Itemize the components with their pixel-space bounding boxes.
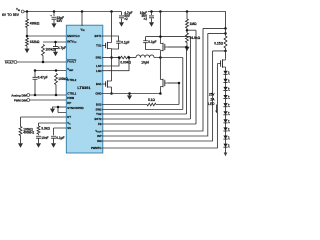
- wire SW1 to Rs: [112, 57, 120, 59]
- wire GND bus: [102, 93, 160, 95]
- inductor L1 10uH: [136, 55, 154, 58]
- capacitor C7 0.1uF: [51, 136, 56, 138]
- svg-text:FAULT: FAULT: [5, 60, 14, 64]
- op-amp U1 LT8391 body: [66, 25, 103, 153]
- resistor R8 3.3k: [37, 126, 40, 134]
- svg-text:54.9kΩ: 54.9kΩ: [190, 36, 201, 40]
- resistor R9 sense 4m: [119, 56, 129, 59]
- junction INTVCC C4: [54, 41, 57, 44]
- arrow LED return: [224, 153, 228, 157]
- junction FB divider rail: [186, 10, 189, 13]
- wire ISN: [102, 51, 226, 141]
- wire C8 to SW1: [112, 43, 119, 49]
- svg-text:332kΩ: 332kΩ: [30, 40, 40, 44]
- wire R8 to C6: [38, 134, 40, 135]
- wire BG2: [102, 104, 147, 106]
- wire Rs to L1: [129, 57, 136, 59]
- svg-text:ISP: ISP: [97, 134, 102, 138]
- junction M4 gnd: [159, 92, 162, 95]
- ground RT: [18, 143, 23, 148]
- wire INTVCC to C4: [55, 42, 57, 47]
- wire VIN rail: [24, 11, 122, 13]
- wire TG2: [102, 47, 187, 114]
- diode LED1: [223, 71, 227, 75]
- wire BST1: [102, 36, 119, 41]
- wire M3 drain: [111, 80, 113, 83]
- junction gnd stub: [128, 92, 131, 95]
- capacitor C6 10nF: [36, 136, 41, 138]
- wire rail to C3: [151, 12, 153, 16]
- wire LED7 link: [225, 115, 227, 120]
- diode LED8: [223, 127, 227, 131]
- capacitor C8 0.1uF BST1: [116, 41, 121, 43]
- wire LED6 link: [225, 107, 227, 112]
- wire Rs2 bot: [225, 48, 227, 58]
- junction M2 drain rail: [159, 10, 162, 13]
- wire R3 to R4: [186, 28, 188, 33]
- wire Rs2 top: [225, 28, 227, 36]
- wire LED1 link: [225, 70, 227, 71]
- svg-text:ISN: ISN: [97, 139, 102, 143]
- transistor M2: [160, 44, 163, 51]
- svg-text:TG2: TG2: [96, 112, 102, 116]
- resistor R3 1M: [186, 19, 189, 28]
- diode LED3: [223, 87, 227, 91]
- junction M3 gnd: [110, 92, 113, 95]
- svg-text:SW2: SW2: [96, 108, 103, 112]
- wire LED5 link: [225, 99, 227, 104]
- wire LED string bottom: [225, 147, 227, 152]
- wire rail to C2: [121, 12, 123, 16]
- wire RT: [21, 117, 67, 127]
- svg-text:FAULT: FAULT: [67, 59, 76, 63]
- svg-text:SYNC/SPRD: SYNC/SPRD: [67, 106, 83, 110]
- ground SS: [51, 143, 56, 148]
- terminal VIN: [21, 10, 24, 13]
- capacitor C3 10uF: [149, 16, 154, 18]
- svg-text:PWM DIM: PWM DIM: [14, 98, 27, 102]
- junction ISN: [224, 50, 227, 53]
- ground C2: [119, 22, 124, 27]
- capacitor C5 0.47uF: [33, 77, 38, 79]
- wire PWM: [30, 99, 66, 101]
- svg-text:0.004Ω: 0.004Ω: [120, 60, 131, 64]
- svg-text:RP: RP: [67, 101, 71, 105]
- transistor M1: [102, 45, 106, 47]
- wire VC: [39, 123, 67, 126]
- wire C3 to gnd: [151, 19, 153, 23]
- diode LED10: [223, 144, 227, 148]
- wire RP to gnd: [53, 107, 59, 109]
- wire M2 gate: [168, 46, 185, 48]
- svg-text:LSN: LSN: [96, 69, 102, 73]
- svg-text:FB: FB: [98, 122, 102, 126]
- wire VIN to R1: [26, 12, 28, 20]
- junction C3 tap: [150, 10, 153, 13]
- transistor M4: [160, 80, 163, 87]
- svg-text:5.1Ω: 5.1Ω: [148, 98, 155, 102]
- wire M3 source: [111, 87, 113, 94]
- arrow LED current: [215, 111, 218, 114]
- resistor R10 5.1: [147, 103, 156, 106]
- capacitor C2 4.7uF: [119, 16, 124, 18]
- ground C4: [53, 52, 58, 57]
- wire LED9 link: [225, 131, 227, 136]
- junction M4 gate tie: [178, 82, 181, 85]
- wire M4 drain: [159, 58, 161, 80]
- wire FAULT: [17, 61, 66, 63]
- wire VIN pin: [81, 12, 83, 27]
- junction LSN: [128, 56, 131, 59]
- wire C6 to gnd: [38, 138, 40, 143]
- wire FB: [102, 30, 196, 124]
- wire M4 source: [159, 87, 161, 94]
- junction SW2: [159, 56, 162, 59]
- svg-text:CTRL2: CTRL2: [67, 78, 76, 82]
- junction M1 drain: [110, 10, 113, 13]
- wire M1 drain: [111, 12, 113, 43]
- junction BST2 M2d: [159, 35, 162, 38]
- wire VREF to C5: [34, 71, 36, 78]
- svg-text:EN/UVLO: EN/UVLO: [67, 34, 80, 38]
- wire LED10 link: [225, 139, 227, 144]
- wire M4 gate: [168, 82, 179, 84]
- wire rail to C1: [53, 12, 55, 17]
- diode LED2: [223, 79, 227, 83]
- wire gnd stub: [129, 94, 131, 96]
- svg-text:SS: SS: [67, 126, 71, 130]
- wire INTVCC: [43, 41, 66, 43]
- wire SYNC/SPRD: [58, 107, 66, 113]
- resistor R7 RT 100k: [19, 127, 22, 136]
- ground VC: [36, 143, 41, 148]
- wire RP: [58, 106, 66, 108]
- wire R4 to gnd: [186, 43, 188, 47]
- svg-text:10nF: 10nF: [41, 136, 48, 140]
- svg-text:499kΩ: 499kΩ: [30, 22, 40, 26]
- svg-text:CTRL1: CTRL1: [67, 91, 76, 95]
- ground R2: [25, 49, 30, 54]
- wire SW1 node: [111, 49, 113, 81]
- wire LED3 link: [225, 82, 227, 87]
- wire C7 to gnd: [53, 138, 55, 143]
- wire C2 to gnd: [121, 19, 123, 23]
- wire current arrow stem: [216, 105, 218, 111]
- resistor R4 54.9k: [186, 33, 189, 43]
- wire LED2 link: [225, 74, 227, 79]
- wire R5 to FAULT net: [42, 56, 44, 63]
- resistor R6 100k: [55, 74, 58, 85]
- wire M2 drain: [159, 12, 161, 44]
- svg-text:6V TO 55V: 6V TO 55V: [2, 13, 20, 17]
- wire C4 to gnd: [55, 49, 57, 52]
- svg-text:4.7μF: 4.7μF: [58, 46, 66, 50]
- wire LED4 link: [225, 90, 227, 95]
- junction M2 gate tie: [185, 46, 188, 49]
- wire R7 to gnd: [20, 136, 22, 144]
- capacitor C4 4.7uF: [53, 47, 58, 49]
- junction FB tap: [186, 29, 189, 32]
- diode LED4: [223, 95, 227, 99]
- terminal FAULT: [14, 61, 17, 64]
- svg-text:SW1: SW1: [96, 56, 103, 60]
- svg-text:RT: RT: [67, 115, 71, 119]
- svg-text:100kΩ: 100kΩ: [58, 77, 68, 81]
- diode LED6: [223, 111, 227, 115]
- capacitor C9 0.1uF BST2: [143, 41, 148, 43]
- ground RP: [50, 109, 55, 114]
- ground power: [127, 95, 132, 100]
- svg-text:BST2: BST2: [94, 117, 102, 121]
- svg-text:BST1: BST1: [94, 34, 102, 38]
- wire C1 to gnd: [53, 20, 55, 24]
- wire FB tap: [187, 29, 196, 31]
- junction SW1: [110, 56, 113, 59]
- wire rail to R3: [186, 12, 188, 20]
- svg-text:0.1μF: 0.1μF: [148, 40, 156, 44]
- junction VREF R6: [55, 69, 58, 72]
- svg-text:3.3kΩ: 3.3kΩ: [41, 126, 50, 130]
- svg-text:10μH: 10μH: [141, 60, 149, 64]
- wire R2 to gnd: [26, 46, 28, 49]
- wire VOUT sense: [102, 28, 226, 131]
- resistor R11 0.15 sense: [224, 36, 227, 48]
- junction RP SYNC: [57, 106, 60, 109]
- wire R1 to R2: [26, 28, 28, 39]
- wire C5 to CTRL net: [34, 79, 36, 95]
- wire M2 source: [159, 51, 161, 58]
- svg-text:1MΩ: 1MΩ: [190, 22, 197, 26]
- wire LSN: [102, 58, 129, 71]
- capacitor C1 33uF: [52, 17, 57, 19]
- svg-text:TG1: TG1: [96, 44, 102, 48]
- wire BG2 cont: [156, 83, 179, 105]
- svg-text:0.47μF: 0.47μF: [38, 75, 48, 79]
- wire LED8 link: [225, 123, 227, 128]
- svg-text:LT8391: LT8391: [77, 85, 91, 90]
- terminal Analog DIM: [27, 94, 30, 97]
- resistor R2 332k: [26, 38, 29, 46]
- svg-text:0.15Ω: 0.15Ω: [214, 42, 223, 46]
- terminal PWM DIM: [27, 99, 30, 102]
- wire BST2 row: [146, 36, 191, 38]
- junction ISP: [224, 32, 227, 35]
- wire ISP: [102, 33, 226, 136]
- wire VOUT rail: [148, 12, 226, 29]
- wire VREF: [35, 70, 66, 72]
- svg-text:GND: GND: [95, 91, 101, 95]
- wire SW1 pin: [102, 57, 112, 59]
- svg-text:PWMTG: PWMTG: [91, 146, 102, 150]
- junction VREF C5: [34, 69, 37, 72]
- junction CTRL1 C5: [34, 94, 37, 97]
- junction VIN pin: [81, 10, 84, 13]
- junction LSP: [118, 56, 121, 59]
- junction VIN cap: [53, 10, 56, 13]
- resistor R5 100k pullup: [42, 45, 45, 56]
- diode LED7: [223, 119, 227, 123]
- ground C1: [52, 23, 57, 28]
- wire LSP: [102, 58, 119, 67]
- wire SS: [54, 128, 67, 135]
- wire L1 to SW2: [154, 57, 183, 59]
- junction VIN divider: [26, 10, 29, 13]
- junction CTRL1 R6: [55, 94, 58, 97]
- junction FAULT R5: [42, 61, 45, 64]
- polarity plus C1: [50, 15, 52, 17]
- wire SW2 pin: [102, 58, 183, 110]
- transistor Q1 PWM dim: [220, 60, 222, 66]
- ground R4: [185, 47, 190, 52]
- transistor M3: [102, 83, 106, 85]
- ground C3: [149, 22, 154, 27]
- diode LED9: [223, 136, 227, 140]
- wire CTRL1: [30, 94, 66, 96]
- junction EN tap: [26, 35, 29, 38]
- svg-text:LSP: LSP: [96, 64, 102, 68]
- wire EN/UVLO: [27, 35, 66, 37]
- svg-text:0.1μF: 0.1μF: [121, 41, 129, 45]
- wire BST2 pin: [102, 37, 190, 119]
- svg-text:BG2: BG2: [96, 103, 102, 107]
- svg-text:Analog DIM: Analog DIM: [11, 93, 27, 97]
- wire C9 top: [145, 37, 147, 41]
- junction VOUT top: [224, 27, 227, 30]
- svg-text:BG1: BG1: [96, 82, 102, 86]
- svg-text:0.1μF: 0.1μF: [56, 136, 64, 140]
- resistor R1 499k: [26, 19, 29, 28]
- wire R6 to CTRL net: [55, 85, 57, 96]
- wire PWMTG: [102, 64, 221, 149]
- svg-text:PWM: PWM: [67, 96, 75, 100]
- wire C9 bottom: [146, 43, 161, 50]
- diode LED5: [223, 103, 227, 107]
